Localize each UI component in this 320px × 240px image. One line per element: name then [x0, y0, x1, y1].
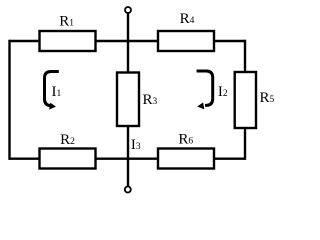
- wire: left vertical side: [8, 40, 10, 160]
- resistor R3: [117, 73, 139, 127]
- resistor R4: [158, 31, 214, 51]
- wire: right vertical side through R5: [244, 40, 246, 160]
- terminal: top node circle: [125, 7, 131, 13]
- resistor R5: [235, 72, 256, 128]
- resistor R1: [40, 31, 96, 51]
- resistor R2: [40, 149, 96, 169]
- terminal: bottom node circle: [125, 187, 131, 193]
- wire: middle vertical from top terminal through R3 to bottom terminal: [127, 13, 129, 186]
- wire: bottom horizontal from left corner through R2, R6 to right corner: [10, 157, 246, 159]
- mesh current arrow I2 (clockwise, right loop): [197, 71, 213, 109]
- mesh current arrow I1 (clockwise, left loop): [45, 72, 59, 110]
- resistor R6: [158, 149, 214, 169]
- wire: top horizontal from left corner through R1, R4 to right corner: [10, 40, 246, 42]
